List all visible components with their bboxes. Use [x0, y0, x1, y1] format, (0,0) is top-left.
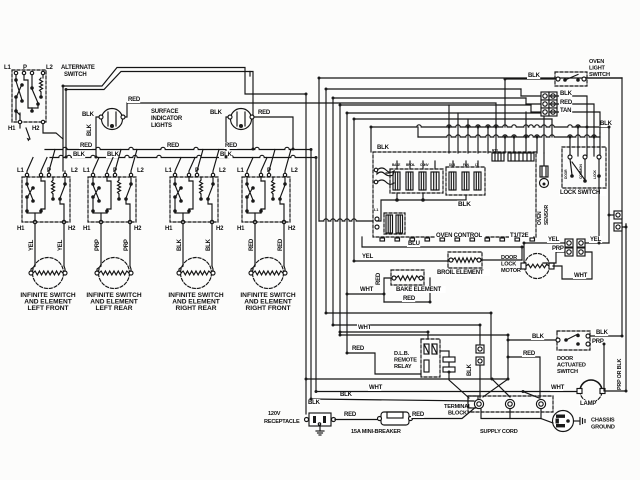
svg-text:ALTERNATE: ALTERNATE [61, 65, 95, 71]
svg-text:15A MINI-BREAKER: 15A MINI-BREAKER [351, 429, 401, 435]
wire H2 lead (S3) [211, 224, 213, 266]
wire PRP [543, 252, 565, 263]
wire from oven light switch right [586, 77, 622, 79]
svg-text:SENSOR: SENSOR [544, 204, 550, 225]
wire W6 [354, 119, 552, 261]
wire bus1 y127 [370, 127, 372, 152]
wire H2 lead (S1) [63, 224, 65, 266]
svg-text:SWITCH: SWITCH [589, 72, 610, 78]
oven control box [373, 152, 536, 237]
receptacle ground [319, 426, 321, 431]
svg-text:H2: H2 [288, 226, 296, 232]
wire lock switch risers [569, 137, 571, 156]
wire feeds from bus to S4 [247, 158, 253, 174]
wire BLK bus [50, 155, 316, 157]
wire RED bus [45, 147, 311, 149]
svg-text:DLB: DLB [449, 163, 456, 167]
svg-text:BLK: BLK [206, 238, 212, 251]
label PRP (door sw) [591, 338, 604, 345]
svg-text:WHT: WHT [369, 385, 383, 391]
svg-text:RT1: RT1 [492, 149, 498, 153]
oven control transformer [384, 213, 405, 234]
svg-text:D.L.B.: D.L.B. [394, 351, 410, 357]
label RED (y357) [522, 350, 535, 357]
svg-text:REMOTE: REMOTE [394, 358, 417, 364]
svg-text:RED: RED [560, 100, 573, 106]
svg-text:BLK: BLK [377, 145, 390, 151]
wire W2 drop [520, 89, 522, 96]
broil element [448, 252, 482, 268]
label RED (y302) [402, 295, 415, 302]
wire branch WHT y294 [347, 293, 384, 295]
wire W2 [326, 89, 521, 313]
label YEL (y261) [361, 253, 374, 260]
wire feeds from bus to S1 [27, 158, 33, 174]
wire RED vertical x384 [384, 278, 392, 302]
label BLK (bus mid-left) [106, 151, 119, 158]
svg-text:PRP: PRP [124, 239, 130, 251]
svg-text:BLK: BLK [340, 392, 353, 398]
wire rail WHT y392 [316, 391, 577, 393]
wire connector BLK [521, 95, 541, 97]
supply cord conductor bottom bus [481, 409, 541, 419]
wire H1 stub [19, 124, 21, 128]
label BROIL ELEMENT [436, 269, 490, 276]
terminal squares right edge [614, 211, 622, 219]
wire BLK bus continuation x316 [315, 158, 317, 392]
svg-text:LIGHTS: LIGHTS [151, 123, 172, 129]
wire W5 [347, 113, 544, 353]
infinite switch S4 contacts [245, 182, 249, 186]
wire W1 right drop [621, 78, 623, 336]
connector block 3x2 [541, 92, 549, 100]
surface indicator light 1 [102, 109, 123, 130]
wire W3 drop [525, 98, 527, 104]
wire W4 drop [530, 105, 532, 112]
label BLK (inside oven control) [457, 201, 471, 209]
wire W4 [340, 105, 531, 335]
wire PRP door sw [590, 343, 604, 345]
svg-text:SURFACE: SURFACE [151, 109, 178, 115]
svg-text:RED: RED [403, 296, 416, 302]
svg-text:WHT: WHT [574, 273, 588, 279]
svg-text:BLK: BLK [73, 152, 86, 158]
label RED (connector) [559, 99, 572, 106]
oven control relay group A [390, 169, 443, 193]
svg-text:MOTOR: MOTOR [501, 268, 521, 274]
svg-text:H2: H2 [134, 226, 142, 232]
wire RED from light 2 [254, 117, 293, 149]
svg-text:RED: RED [225, 143, 238, 149]
label BLK (bus left) [72, 151, 85, 158]
svg-text:BLK: BLK [308, 400, 321, 406]
wire branch WHT y332 [340, 332, 428, 339]
label PRP [551, 245, 564, 252]
svg-text:RED: RED [167, 143, 180, 149]
infinite switch S4 box [242, 177, 290, 222]
svg-text:BLK: BLK [532, 334, 545, 340]
label RED (breaker-tb) [411, 411, 424, 418]
svg-text:INDICATOR: INDICATOR [151, 116, 183, 122]
wire x609 vertical [608, 127, 610, 243]
15A mini-breaker [381, 412, 409, 425]
svg-text:LEFT FRONT: LEFT FRONT [27, 305, 68, 312]
label BLK (rail) [339, 391, 352, 398]
svg-text:BLK: BLK [87, 123, 93, 136]
svg-text:SWITCH: SWITCH [557, 369, 578, 375]
label BLK (door sw right) [595, 329, 608, 336]
svg-text:OVEN: OVEN [537, 211, 543, 225]
wire RED bus from light 1 [125, 103, 496, 127]
svg-text:BLK: BLK [82, 112, 95, 118]
svg-text:LOCK SWITCH: LOCK SWITCH [560, 190, 600, 196]
label WHT (rail) [368, 384, 381, 391]
svg-text:RED: RED [278, 238, 284, 251]
chassis ground plug [553, 411, 574, 432]
wire branch y313 [326, 312, 491, 314]
svg-text:WHT: WHT [551, 385, 565, 391]
label WHT (motor) [573, 272, 586, 279]
wire H1 lead (S3) [182, 224, 184, 266]
svg-text:RIGHT REAR: RIGHT REAR [175, 305, 216, 312]
wire riser x508 [507, 335, 509, 379]
svg-text:H2: H2 [68, 226, 76, 232]
infinite switch S3 contacts [173, 182, 177, 186]
svg-text:L2: L2 [46, 65, 53, 71]
terminal squares x480 [476, 345, 484, 353]
oven sensor [543, 153, 545, 166]
svg-text:BLK: BLK [528, 73, 541, 79]
svg-text:DOOR: DOOR [564, 169, 568, 179]
wire connector TAN [531, 111, 541, 113]
wire stubs terminal squares [609, 214, 614, 216]
label RED (bus left) [79, 142, 92, 149]
label BLK (connector) [559, 90, 572, 97]
wire YEL right [585, 242, 609, 244]
wire W6 drops [457, 113, 459, 153]
infinite switch S2 box [88, 177, 136, 222]
svg-text:RED: RED [352, 346, 365, 352]
svg-text:BLK: BLK [467, 363, 473, 376]
element E1 [33, 258, 64, 289]
oven control interior wires [396, 161, 398, 169]
label T1/T2E [509, 232, 533, 239]
label YEL (left) [547, 236, 560, 243]
label BLK (oven light switch) [527, 72, 540, 79]
svg-text:L1: L1 [4, 65, 11, 71]
label BLK (above oven control) [376, 144, 389, 151]
wire x626 vertical (PRP OR BLK) [625, 224, 627, 392]
svg-text:BROIL: BROIL [406, 163, 415, 167]
wire branch RED y353 left [347, 353, 421, 374]
wire W5 drop at 449 [448, 105, 450, 153]
label RED (light2) [257, 109, 270, 116]
wire branch y335 [340, 334, 508, 336]
svg-text:YEL: YEL [58, 239, 64, 251]
wire BLK from light 2 [226, 117, 228, 157]
svg-text:H2: H2 [32, 126, 40, 132]
label BLK (door sw left) [531, 333, 544, 340]
supply cord conductor 3 [536, 399, 545, 408]
bake element [391, 270, 424, 285]
svg-text:RED: RED [249, 238, 255, 251]
svg-text:RECEPTACLE: RECEPTACLE [264, 419, 300, 425]
svg-text:120V: 120V [268, 411, 281, 417]
supply cord conductor 2 [505, 399, 514, 408]
element E4 [253, 258, 284, 289]
svg-text:BLK: BLK [177, 238, 183, 251]
svg-text:BROIL ELEMENT: BROIL ELEMENT [437, 270, 484, 276]
svg-text:H1: H1 [165, 226, 173, 232]
door actuated switch [557, 331, 590, 350]
svg-text:LOCK: LOCK [501, 262, 516, 268]
wire BLK door sw left [508, 339, 556, 341]
label BLK (bus right) [219, 151, 232, 158]
svg-text:L2: L2 [137, 168, 144, 174]
svg-text:ACTUATED: ACTUATED [557, 363, 586, 369]
svg-text:CHASSIS: CHASSIS [591, 418, 615, 424]
svg-text:H1: H1 [83, 226, 91, 232]
label WHT (y294) [359, 286, 372, 293]
wire rail y221 to oven control [319, 219, 373, 221]
wire BLU y247 [362, 237, 522, 260]
label WHT (y332) [357, 324, 370, 331]
element E2 [99, 258, 130, 289]
terminal block symbol [468, 396, 478, 408]
oven control relay group B [446, 167, 485, 195]
door lock motor [525, 254, 550, 279]
label LAMP [579, 400, 596, 407]
label BLK (bus right end) [599, 120, 612, 127]
svg-text:RELAY: RELAY [394, 364, 412, 370]
wire branch y325 [333, 324, 480, 326]
wire BLK from light 1 [96, 117, 99, 157]
label RED (y353 left) [351, 345, 364, 352]
surface indicator light 2 [231, 109, 252, 130]
lamp [580, 380, 602, 391]
svg-text:H2: H2 [216, 226, 224, 232]
label LOCK SWITCH [559, 189, 606, 196]
svg-text:RED: RED [258, 110, 271, 116]
120V receptacle [309, 413, 331, 426]
wire feeds from bus to S3 [175, 158, 181, 174]
arrow from alternate switch [26, 128, 30, 139]
wire branch YEL y261 [354, 260, 448, 262]
svg-text:LEFT REAR: LEFT REAR [96, 305, 133, 312]
label RED (bus right) [224, 142, 237, 149]
svg-text:L2: L2 [291, 168, 298, 174]
label RED (light1) [127, 96, 140, 103]
wire feeds from bus to S2 [93, 158, 99, 174]
lock switch box [562, 147, 606, 188]
oven control left edge squiggle wires [377, 168, 394, 176]
wire YEL left [523, 243, 525, 263]
supply cord conductor 1 [474, 399, 483, 408]
oven control terminal strip RT1 [492, 153, 504, 161]
svg-text:BLK: BLK [458, 201, 471, 208]
svg-text:L1: L1 [237, 168, 244, 174]
svg-text:GROUND: GROUND [591, 425, 615, 431]
svg-text:RED: RED [80, 143, 93, 149]
svg-text:BLK: BLK [210, 110, 223, 116]
svg-text:PRP OR BLK: PRP OR BLK [617, 359, 623, 390]
svg-text:YEL: YEL [548, 237, 560, 243]
svg-text:PRP: PRP [592, 339, 604, 345]
DLB contacts [443, 357, 455, 362]
wire branch RED y302 [384, 278, 430, 302]
wire H2 lead (S2) [129, 224, 131, 266]
svg-text:SUPPLY CORD: SUPPLY CORD [480, 429, 518, 435]
svg-text:RED: RED [128, 97, 141, 103]
svg-text:L2: L2 [219, 168, 226, 174]
svg-text:H1: H1 [8, 126, 16, 132]
svg-text:L1: L1 [83, 168, 90, 174]
alternate switch [12, 70, 46, 122]
wire drops into oven control terminals [477, 127, 479, 153]
svg-text:LIGHT: LIGHT [589, 66, 606, 72]
wire lamp right [605, 390, 626, 392]
wire RED receptacle-breaker [335, 419, 379, 421]
svg-text:YEL: YEL [362, 254, 374, 260]
element E3 [181, 258, 212, 289]
wire stepped feed B [66, 72, 250, 158]
svg-text:LOCK: LOCK [593, 169, 597, 179]
wire diagonal to supply conductor 1 [483, 379, 508, 397]
svg-text:YEL: YEL [29, 239, 35, 251]
wire to chassis ground [541, 419, 553, 424]
oven light switch [555, 72, 587, 86]
svg-text:L1: L1 [165, 168, 172, 174]
label BLK (receptacle riser) [307, 399, 320, 406]
wire H2 stub [43, 124, 63, 139]
svg-text:PRP: PRP [95, 239, 101, 251]
svg-text:H1: H1 [237, 226, 245, 232]
wire stepped feed A [63, 68, 306, 172]
svg-text:LAMP: LAMP [580, 401, 596, 407]
wire connector RED [526, 103, 541, 105]
wire receptacle riser [305, 379, 307, 414]
oven control left terminals [375, 217, 379, 221]
svg-text:CONV: CONV [420, 163, 429, 167]
svg-text:BLOCK: BLOCK [448, 411, 467, 417]
label BAKE ELEMENT [395, 286, 445, 293]
svg-text:H1: H1 [17, 226, 25, 232]
svg-text:TAN: TAN [560, 108, 571, 114]
label YEL (right) [589, 236, 602, 243]
wire BLK door sw right [590, 335, 622, 337]
svg-text:DOOR: DOOR [501, 255, 517, 261]
wire to oven light switch [505, 78, 556, 80]
svg-text:BLK: BLK [596, 330, 609, 336]
svg-text:BAKE: BAKE [392, 163, 400, 167]
wire W3 [333, 98, 526, 325]
svg-text:BLK: BLK [560, 91, 573, 97]
wire H1 lead (S1) [34, 224, 36, 266]
svg-text:SWITCH: SWITCH [64, 72, 86, 78]
wire H1 lead (S4) [254, 224, 256, 266]
svg-text:RED: RED [523, 351, 536, 357]
label WHT (lamp) [550, 384, 563, 391]
svg-text:RED: RED [412, 412, 425, 418]
wire PRP x604 [603, 344, 605, 391]
junction dots [305, 93, 308, 96]
label RED (bus mid) [166, 142, 179, 149]
chassis ground symbol [574, 420, 580, 422]
DLB remote relay box [421, 339, 440, 377]
svg-text:BLU: BLU [408, 241, 420, 247]
infinite switch S2 contacts [91, 182, 95, 186]
wire WHT (motor right) [553, 252, 592, 279]
svg-text:WHT: WHT [358, 325, 372, 331]
label OVEN CONTROL [435, 232, 485, 239]
svg-text:RED: RED [344, 412, 357, 418]
supply cord box [468, 396, 553, 412]
svg-text:COMMON: COMMON [579, 164, 583, 179]
label RED (recept-breaker) [343, 411, 356, 418]
wire RED breaker-terminal block [412, 406, 477, 419]
wire diagonal to supply conductor 2 [492, 379, 510, 397]
wire supply riser x491 [490, 313, 492, 379]
oven control bottom terminal marks [380, 238, 385, 241]
wire H1 lead (S2) [100, 224, 102, 266]
wire bundle W1 (outer) [319, 78, 622, 221]
infinite switch S1 box [22, 177, 70, 222]
wire rail BLK y399 [311, 399, 474, 401]
infinite switch S3 box [170, 177, 218, 222]
label TAN (connector) [559, 107, 572, 114]
wire RED y357 to x540 [508, 357, 540, 398]
svg-text:BLK: BLK [600, 121, 613, 127]
wire H2 lead (S4) [283, 224, 285, 266]
svg-text:BAKE ELEMENT: BAKE ELEMENT [396, 287, 441, 293]
wire diagonal to supply conductor 3 [523, 392, 539, 399]
svg-text:WHT: WHT [360, 287, 374, 293]
svg-text:L1: L1 [17, 168, 24, 174]
wire F1 vertical [305, 94, 307, 379]
wire lock switch bottom [598, 177, 600, 243]
svg-text:L2: L2 [71, 168, 78, 174]
oven control terminal strip P1 [508, 153, 534, 161]
wire bus2 y137 [417, 127, 419, 137]
svg-text:P: P [23, 65, 27, 71]
wire RED bus continuation x311 [310, 150, 312, 400]
wire broil right [481, 259, 522, 261]
svg-text:OVEN: OVEN [589, 59, 604, 65]
wire supply riser x480 [479, 325, 481, 345]
svg-text:RED: RED [376, 272, 382, 285]
svg-text:DOOR: DOOR [557, 356, 573, 362]
wire rail y379 [306, 378, 508, 380]
svg-text:PRP: PRP [552, 246, 564, 252]
label BLU (y247) [407, 240, 420, 247]
infinite switch S1 contacts [25, 182, 29, 186]
yel/prp terminal blocks [565, 239, 573, 247]
svg-text:RIGHT FRONT: RIGHT FRONT [245, 305, 290, 312]
